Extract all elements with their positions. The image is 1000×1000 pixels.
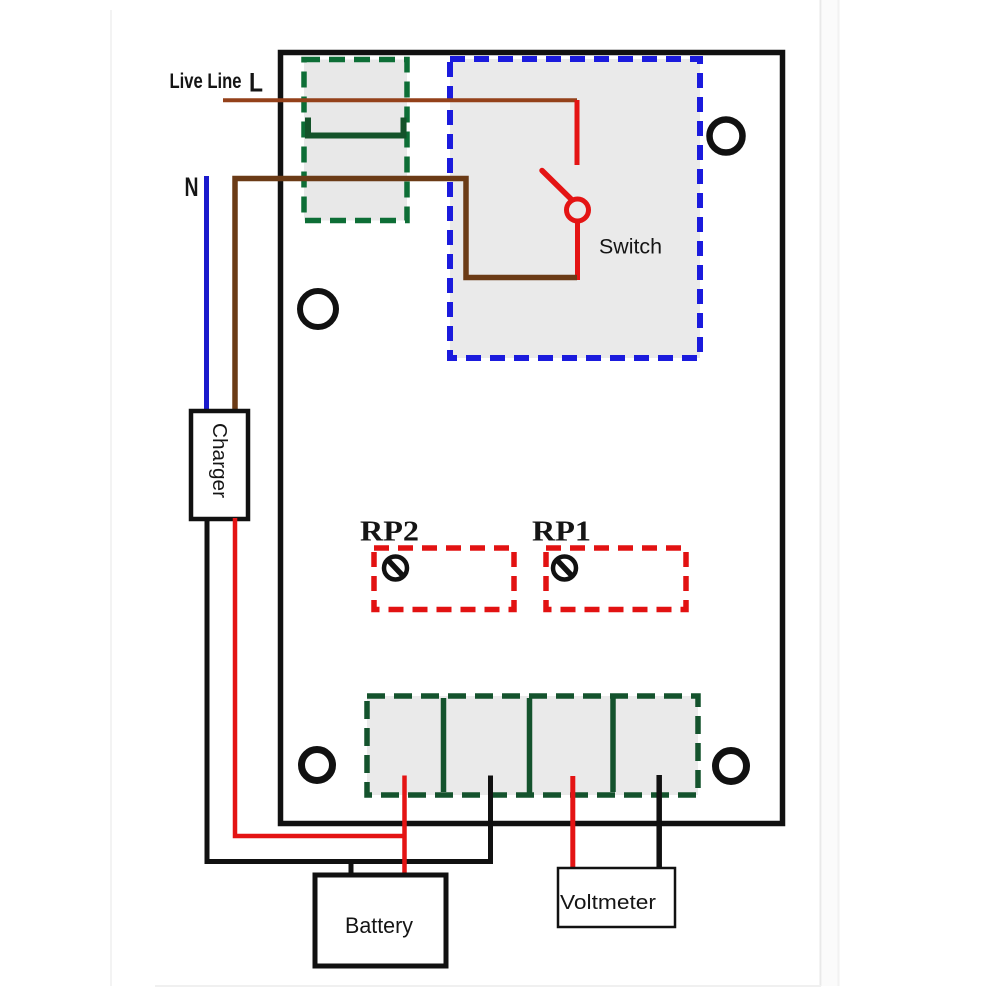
wire voltmeter red	[570, 776, 575, 869]
page edge faint line right B	[838, 0, 840, 986]
svg-text:Battery: Battery	[345, 913, 413, 938]
page edge faint band right	[822, 0, 838, 986]
wire neutral blue	[204, 176, 209, 412]
wire switch top red	[575, 100, 580, 165]
TB2 divider 2	[527, 698, 533, 794]
svg-text:Charger: Charger	[208, 423, 231, 498]
potentiometer RP1 box	[546, 548, 686, 610]
mounting hole bottom-right	[716, 751, 747, 782]
potentiometer RP2 box	[374, 548, 514, 610]
wire charger black output	[207, 519, 491, 862]
svg-text:Live Line: Live Line	[170, 70, 242, 93]
terminal block TB2 (bottom, green dashed)	[367, 696, 698, 795]
svg-text:N: N	[185, 172, 199, 202]
screw RP2	[384, 557, 407, 580]
wire neutral brown polyline	[235, 179, 577, 413]
svg-text:L: L	[249, 68, 263, 98]
page edge faint line right A	[820, 0, 822, 986]
switch blade SW1	[542, 171, 572, 200]
wire charger red output	[235, 518, 405, 836]
switch contact circle	[567, 199, 589, 221]
wire battery red	[402, 776, 407, 877]
voltmeter box M1	[558, 868, 675, 927]
mounting hole left-mid	[300, 291, 336, 327]
page edge faint line bottom	[155, 985, 821, 987]
mounting hole top-right	[710, 120, 743, 153]
charger box U1	[191, 411, 248, 519]
mounting hole bottom-left	[302, 750, 333, 781]
TB2 divider 3	[610, 698, 616, 792]
svg-text:RP1: RP1	[532, 517, 591, 548]
svg-text:Switch: Switch	[599, 235, 662, 259]
wire switch bottom red	[575, 223, 580, 280]
battery box BT1	[315, 875, 446, 966]
svg-text:Voltmeter: Voltmeter	[560, 892, 656, 914]
wire live line brown	[223, 98, 577, 102]
TB2 divider 1	[441, 698, 447, 792]
page edge faint line left	[110, 10, 112, 986]
terminal block TB1 (top-left, green dashed)	[304, 60, 407, 221]
wire voltmeter black	[656, 775, 662, 869]
svg-text:RP2: RP2	[360, 517, 419, 548]
wire battery stub black	[349, 862, 354, 877]
PCB board outline	[281, 53, 783, 824]
switch enclosure (blue dashed)	[450, 59, 700, 358]
jumper link inside TB1	[308, 118, 404, 136]
screw RP1	[553, 557, 576, 580]
